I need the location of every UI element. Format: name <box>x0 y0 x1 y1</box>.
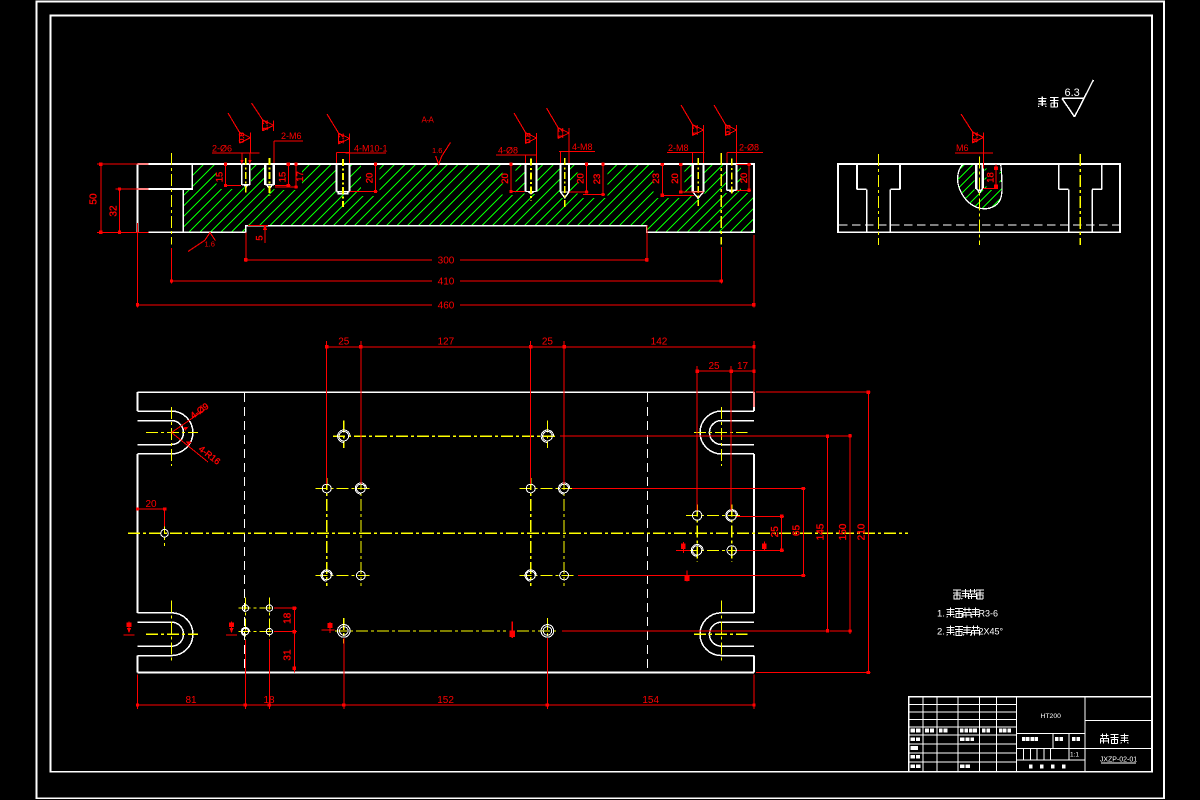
svg-text:6.3: 6.3 <box>1065 87 1080 99</box>
dimension 50 left <box>97 163 149 234</box>
roughness symbol at 2-phi8 <box>714 105 737 152</box>
plan bottom-right U-slot <box>700 613 754 656</box>
svg-text:4-Ø8: 4-Ø8 <box>498 146 518 156</box>
yellow centerlines of section holes <box>246 158 732 208</box>
label 2-M8 with leader <box>667 153 705 164</box>
svg-text:20: 20 <box>670 173 681 184</box>
svg-text:210: 210 <box>857 523 868 540</box>
svg-text:127: 127 <box>437 337 454 348</box>
label 4-M10-1 with leader <box>337 153 387 164</box>
svg-text:20: 20 <box>145 499 157 510</box>
svg-text:410: 410 <box>438 277 455 288</box>
svg-text:460: 460 <box>438 300 455 311</box>
note line 2: wei zhu dao jiao 2X45 <box>937 626 1004 638</box>
dimension 20 at 4-M10 <box>350 163 378 193</box>
side view right T-slot <box>1059 164 1102 232</box>
side view left T-slot <box>857 164 900 232</box>
plan right dimension 65 <box>572 487 806 577</box>
plan dimension 18/31 lower left <box>274 606 297 672</box>
dimension 15 at 2-M6 <box>275 163 291 187</box>
hole 2-phi6 left bore walls <box>242 164 250 187</box>
dimension 410 <box>170 247 723 284</box>
label M6 with leader <box>955 134 993 169</box>
section view hole bores (black cut-outs) <box>241 163 738 199</box>
dimension 460 <box>136 223 756 308</box>
dimension 17 at 2-M6 <box>275 163 298 189</box>
plan bottom-left U-slot <box>138 613 193 656</box>
svg-text:5: 5 <box>255 235 266 240</box>
svg-text:1.6: 1.6 <box>432 146 442 155</box>
side view local section hatch blob at M6 <box>909 163 1045 211</box>
dimension 20 at 2-M8 <box>679 163 703 194</box>
note line 1: wei zhu yuan jiao R3-6 <box>937 608 998 620</box>
svg-text:150: 150 <box>838 523 849 540</box>
plan dimension row 25/17 upper right <box>696 366 756 511</box>
svg-text:25: 25 <box>338 337 350 348</box>
svg-text:1.2: 1.2 <box>556 128 565 138</box>
plan right dimension 145 <box>560 435 830 633</box>
section arrow A near cluster A <box>322 622 335 633</box>
plan hole cluster D small (x~257) <box>241 605 272 636</box>
section arrow A below cluster C <box>684 571 689 582</box>
svg-text:50: 50 <box>89 193 100 205</box>
svg-text:2-M6: 2-M6 <box>281 131 302 141</box>
svg-text:142: 142 <box>651 337 668 348</box>
svg-text:18: 18 <box>986 172 997 183</box>
plan hole cluster A (x~344) <box>321 430 366 637</box>
plan top-right U-slot <box>700 411 754 454</box>
dimension 23 at 4-M8 <box>583 163 605 196</box>
section arrow A right of cluster C <box>762 542 767 551</box>
svg-text:25: 25 <box>542 337 554 348</box>
svg-text:15: 15 <box>277 172 288 183</box>
svg-text:18: 18 <box>283 612 294 624</box>
hole 2-phi8 bore walls <box>727 164 737 192</box>
hole 4-phi8 bore walls <box>526 164 537 194</box>
plan hidden recess edges (dashed verticals) <box>244 393 647 672</box>
side view part outline <box>838 164 1120 232</box>
hole 4-M10 bore walls <box>336 164 349 194</box>
svg-text:17: 17 <box>737 361 749 372</box>
label 4-R16 slot leader <box>172 433 209 463</box>
dimension 5 recess depth <box>248 226 268 243</box>
svg-text:31: 31 <box>283 649 294 661</box>
plan left dimension 20 <box>136 507 167 526</box>
dimension 20 at 4-phi8 <box>509 163 524 193</box>
svg-text:0.8: 0.8 <box>723 125 732 135</box>
title block grid lines <box>909 697 1152 772</box>
hole 2-M8 bore walls <box>693 164 704 198</box>
svg-text:17: 17 <box>295 171 306 182</box>
svg-text:20: 20 <box>739 173 750 184</box>
svg-text:32: 32 <box>109 205 120 217</box>
dimension 32 left <box>116 187 149 234</box>
svg-text:3.2: 3.2 <box>970 132 979 142</box>
svg-text:2-Ø8: 2-Ø8 <box>739 142 759 152</box>
svg-text:154: 154 <box>642 695 659 706</box>
svg-text:2.: 2. <box>937 627 945 638</box>
svg-text:15: 15 <box>215 172 226 183</box>
section arrow A near cluster B <box>510 622 515 639</box>
label 2-phi6 with leader <box>212 153 259 163</box>
hole 2-M6 bore walls <box>265 164 274 189</box>
svg-text:20: 20 <box>500 173 511 184</box>
plan single hole at left (phi6) <box>161 530 169 538</box>
dimension 20 at 4-M8 <box>569 163 589 194</box>
svg-text:2-Ø6: 2-Ø6 <box>212 143 232 153</box>
section arrow A at plate left edge <box>124 622 135 635</box>
svg-text:M6: M6 <box>956 143 969 153</box>
svg-text:23: 23 <box>651 173 662 184</box>
svg-text:18: 18 <box>263 695 275 706</box>
plan right dimension 210 <box>756 391 870 675</box>
roughness symbol at 4-M10 <box>327 114 350 153</box>
svg-text:HT200: HT200 <box>1040 713 1061 720</box>
plan hole cluster B (x~547) <box>525 430 570 637</box>
svg-text:65: 65 <box>792 525 803 537</box>
roughness symbol at 2-M8 <box>681 105 704 153</box>
svg-text:0.8: 0.8 <box>237 132 246 142</box>
svg-text:1.6: 1.6 <box>205 240 215 249</box>
yellow centerline left end slot <box>171 153 173 245</box>
roughness symbol at 2-M6 <box>252 103 274 131</box>
dimension 15 at 2-phi6 <box>224 163 241 187</box>
roughness symbol at M6 <box>961 114 984 144</box>
svg-text:2X45°: 2X45° <box>979 627 1004 637</box>
side view yellow centerlines <box>879 154 1081 245</box>
svg-text:1.2: 1.2 <box>260 120 269 130</box>
title block tiny header texts (biao ji, chu shu, fen qu, ...) <box>911 729 1080 769</box>
svg-text:25: 25 <box>708 361 720 372</box>
side view hidden recess line (dashed) <box>839 224 1119 226</box>
svg-text:4-M8: 4-M8 <box>572 142 593 152</box>
svg-text:4-M10-1: 4-M10-1 <box>354 143 388 153</box>
svg-text:25: 25 <box>770 526 781 538</box>
hatch hold-out zones around in-section dimensions <box>217 165 754 198</box>
plan top-left U-slot <box>138 411 193 454</box>
surface mark 1.6 on bottom edge <box>188 233 215 252</box>
label 4-phi9 slot leader <box>172 410 206 433</box>
section view part outline <box>138 164 754 232</box>
svg-text:A-A: A-A <box>422 116 435 125</box>
label 4-phi8 with leader <box>496 155 537 163</box>
svg-text:20: 20 <box>576 173 587 184</box>
svg-text:81: 81 <box>185 695 197 706</box>
svg-text:1.2: 1.2 <box>336 133 345 143</box>
side view M6 hole bore <box>975 163 985 193</box>
section view A-A : hatched body of base plate <box>113 163 820 234</box>
surface mark 1.6 on top edge <box>436 143 451 165</box>
roughness symbol at 4-M8 <box>547 108 570 151</box>
plan yellow centerlines <box>128 407 908 661</box>
svg-text:145: 145 <box>816 523 827 540</box>
section arrow A left of cluster C <box>676 542 690 553</box>
plan right dimension 25 <box>737 515 785 553</box>
title block part name jia ju ti (fixture body) <box>1101 734 1129 744</box>
plan top dimension row 25/127/25/142 <box>325 341 756 484</box>
svg-text:R3-6: R3-6 <box>979 609 999 619</box>
plan hole cluster C right (x~714) <box>691 510 737 557</box>
plan view plate outline with slot openings <box>138 392 755 672</box>
dimension 300 <box>244 226 648 262</box>
label 4-M8 with leader <box>559 151 595 163</box>
dimension 23 at 2-M8 <box>661 163 694 197</box>
section arrow A at recess line <box>226 622 237 635</box>
yellow centerline right end slot <box>720 153 722 245</box>
svg-text:23: 23 <box>592 174 603 185</box>
svg-text:20: 20 <box>365 173 376 184</box>
svg-text:152: 152 <box>437 695 454 706</box>
roughness symbol at 4-phi8 <box>514 113 537 155</box>
svg-text:2-M8: 2-M8 <box>668 143 689 153</box>
dimension 20 at 2-phi8 <box>737 163 752 192</box>
hatch hold-out around M6 depth dim <box>987 165 1000 190</box>
svg-text:1:1: 1:1 <box>1070 752 1079 759</box>
svg-text:1.2: 1.2 <box>690 125 699 135</box>
roughness symbol at 2-phi6 <box>228 113 250 153</box>
dimension 18 thread depth <box>983 165 998 189</box>
svg-text:300: 300 <box>438 255 455 266</box>
label 2-phi8 with leader <box>727 152 763 163</box>
plan right dimension 150 <box>830 434 852 634</box>
svg-text:1.: 1. <box>937 609 945 620</box>
svg-text:JXZP-02-01: JXZP-02-01 <box>1100 756 1137 763</box>
hole 4-M8 bore walls <box>561 164 570 198</box>
label 2-M6 with leader <box>274 141 303 163</box>
technical requirements heading (ji shu yao qiu) <box>953 589 984 599</box>
svg-text:0.8: 0.8 <box>523 133 532 143</box>
title block outer frame <box>909 697 1152 772</box>
surface note 6.3 for remainder (qi yu) <box>1062 80 1093 117</box>
plan bottom dimension row 81/18/152/154 <box>136 638 756 709</box>
